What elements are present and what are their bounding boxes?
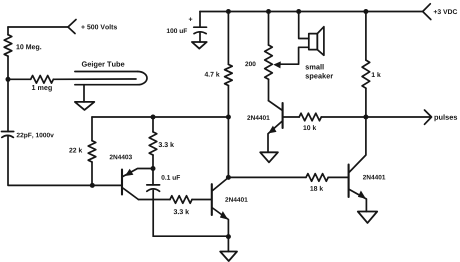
label small [305, 64, 323, 69]
wire wiper [278, 47, 309, 64]
label +3 VDC [434, 9, 458, 14]
resistor R4 3.3 k [149, 132, 157, 155]
label speaker [305, 73, 333, 80]
transistor Q4 2N4401 [349, 117, 367, 212]
label 2N4403 [110, 155, 132, 160]
label 3.3 k [159, 142, 174, 147]
resistor R10 18 k [306, 174, 328, 182]
connector +3 VDC [423, 4, 431, 20]
wire [321, 116, 366, 118]
wire base [92, 184, 121, 186]
wire [8, 78, 31, 80]
ground [358, 212, 377, 223]
node junction [363, 115, 368, 120]
ground [220, 252, 237, 262]
capacitor C1 22pF [2, 132, 14, 138]
resistor R5 3.3 k [170, 196, 192, 204]
transistor Q3 2N4401 [268, 101, 283, 153]
label 10 Meg. [16, 44, 41, 50]
resistor R3 22 k [88, 141, 96, 162]
node junction [226, 175, 231, 180]
transistor Q1 2N4403 [122, 169, 153, 200]
connector pulses [425, 110, 432, 124]
label 4.7 k [205, 72, 220, 77]
label 0.1 uF [161, 175, 180, 180]
label 18 k [310, 186, 323, 191]
wire [8, 136, 92, 185]
wire [228, 176, 306, 178]
wire anode [53, 78, 136, 80]
node junction [226, 9, 231, 14]
ground [260, 152, 278, 162]
connector +500 Volts [68, 20, 76, 34]
label pulses [434, 114, 457, 121]
wire [199, 12, 201, 28]
wire rail [200, 11, 423, 13]
node junction [226, 234, 231, 239]
wire [365, 12, 367, 61]
speaker LS1 [309, 27, 324, 56]
label 3.3 k [174, 209, 189, 214]
wire [192, 199, 211, 201]
potentiometer R7 200 [265, 45, 273, 79]
wire [138, 199, 170, 201]
label 2N4401 [225, 197, 247, 202]
resistor R6 4.7 k [225, 64, 233, 85]
ground [75, 102, 94, 110]
label 2N4401 [247, 115, 269, 120]
resistor R9 1 k [362, 60, 370, 88]
resistor R8 10 k [299, 113, 321, 121]
resistor R2 1 meg [31, 76, 54, 84]
capacitor C2 0.1 uF [147, 185, 160, 191]
node junction [151, 166, 156, 171]
capacitor C3 100 uF [194, 27, 207, 33]
label 1 meg [32, 85, 52, 91]
wire [268, 79, 270, 100]
geiger tube GT1 [75, 72, 147, 85]
wire [7, 27, 9, 35]
label 1 k [372, 72, 381, 77]
wire [92, 116, 153, 118]
ground [192, 42, 207, 49]
node junction [90, 183, 95, 188]
label Geiger Tube [82, 61, 125, 68]
wire [153, 116, 228, 118]
wire [83, 85, 85, 102]
node junction [6, 77, 11, 82]
wire base [284, 116, 300, 118]
node junction [363, 9, 368, 14]
wire [328, 176, 348, 178]
wire [227, 12, 229, 65]
wire [227, 86, 229, 178]
node junction [266, 9, 271, 14]
label plus [189, 17, 193, 21]
label 22 k [69, 148, 82, 153]
wire [7, 56, 9, 131]
wire [152, 155, 154, 169]
wire [8, 26, 68, 28]
label 200 [245, 62, 255, 67]
wire [268, 12, 270, 46]
wire [152, 117, 154, 132]
label 2N4401 [363, 175, 385, 180]
node junction [296, 9, 301, 14]
label 100 uF [167, 28, 187, 33]
resistor R1 10 Meg [4, 35, 12, 56]
wire [152, 169, 154, 185]
node junction [226, 115, 231, 120]
wire [299, 12, 309, 39]
wire [91, 117, 93, 141]
wire [366, 116, 431, 118]
wire [365, 88, 367, 117]
wire [199, 33, 201, 42]
wire [152, 190, 154, 236]
transistor Q2 2N4401 [212, 178, 229, 237]
wire [91, 162, 93, 185]
label 22pF, 1000v [17, 133, 54, 139]
wiper arrow [273, 61, 281, 68]
node junction [151, 115, 156, 120]
wire [227, 237, 229, 252]
label + 500 Volts [81, 24, 117, 29]
wire [153, 235, 228, 237]
label 10 k [303, 125, 316, 130]
